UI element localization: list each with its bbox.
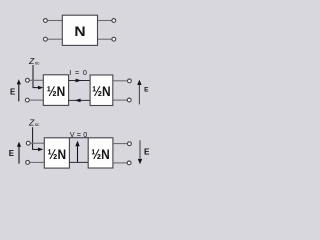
source arrow E left (middle) bbox=[18, 84, 20, 102]
wire bottom-left (bottom) bbox=[30, 161, 45, 163]
half network block ½N left (middle) bbox=[43, 75, 68, 106]
terminal top-right (bottom) bbox=[127, 142, 131, 146]
svg-text:½N: ½N bbox=[47, 84, 66, 99]
wire joining block tops (bottom) bbox=[69, 137, 88, 139]
svg-text:E: E bbox=[144, 148, 150, 157]
svg-text:½N: ½N bbox=[91, 147, 110, 162]
terminal top-right (middle) bbox=[127, 79, 131, 83]
wire bottom-left of N bbox=[48, 38, 63, 40]
wire top-right (middle) bbox=[113, 80, 127, 82]
voltage arrow between blocks (bottom) bbox=[77, 146, 79, 162]
terminal top-left of N bbox=[44, 19, 48, 23]
Zoc impedance arrow bbox=[33, 65, 39, 88]
wire bottom-right (middle) bbox=[113, 99, 127, 101]
wire top-right of N bbox=[98, 20, 112, 22]
svg-text:½N: ½N bbox=[92, 84, 111, 99]
source arrow E right pointing down (bottom) bbox=[139, 140, 141, 159]
network block N bbox=[62, 15, 97, 45]
terminal bottom-right (bottom) bbox=[127, 161, 131, 165]
wire bottom-right of N bbox=[98, 38, 112, 40]
half network block ½N right (bottom) bbox=[88, 138, 113, 168]
svg-text:E: E bbox=[10, 87, 15, 96]
wire top-left (bottom) bbox=[31, 142, 45, 144]
wire top-left (middle) bbox=[30, 79, 44, 81]
svg-text:sc: sc bbox=[35, 122, 40, 127]
Zsc impedance arrow bbox=[33, 127, 39, 149]
svg-text:I = 0: I = 0 bbox=[69, 68, 87, 77]
source arrow E right (middle) bbox=[138, 85, 140, 105]
terminal top-left (middle) bbox=[26, 78, 30, 82]
svg-text:E: E bbox=[9, 149, 14, 158]
wire top-left of N bbox=[48, 20, 63, 22]
terminal bottom-left of N bbox=[44, 37, 48, 41]
wire bottom between blocks (bottom) bbox=[69, 161, 88, 163]
wire bottom-left (middle) bbox=[30, 99, 44, 101]
terminal bottom-left (middle) bbox=[25, 98, 29, 102]
svg-text:oc: oc bbox=[35, 60, 41, 65]
terminal bottom-right (middle) bbox=[127, 98, 131, 102]
svg-text:N: N bbox=[74, 24, 85, 40]
half network block ½N left (bottom) bbox=[44, 138, 69, 168]
wire bottom between blocks (middle) with current arrow bbox=[69, 99, 91, 101]
terminal top-right of N bbox=[112, 19, 116, 23]
terminal bottom-right of N bbox=[112, 37, 116, 41]
source arrow E left (bottom) bbox=[18, 146, 20, 163]
wire top between blocks (middle) with current arrow bbox=[69, 80, 91, 82]
wire top-right (bottom) bbox=[113, 143, 127, 145]
half network block ½N right (middle) bbox=[90, 75, 113, 106]
svg-text:½N: ½N bbox=[48, 147, 67, 162]
terminal top-left (bottom) bbox=[26, 141, 30, 145]
wire bottom-right (bottom) bbox=[113, 162, 127, 164]
svg-text:E: E bbox=[144, 87, 149, 94]
terminal bottom-left (bottom) bbox=[26, 161, 30, 165]
